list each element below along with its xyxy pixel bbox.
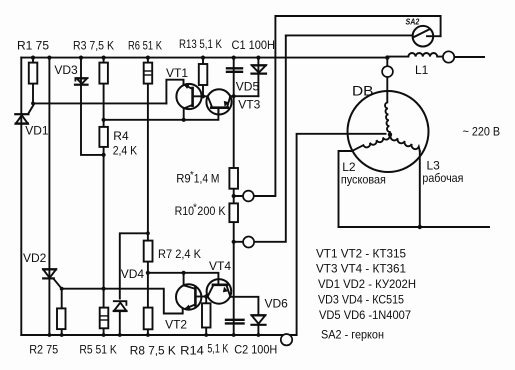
transistor VT4 (207, 279, 232, 304)
wire AC top right (454, 56, 484, 58)
diode VD5 (252, 65, 267, 73)
wire top bus (21, 57, 387, 59)
svg-text:5,1 K: 5,1 K (207, 342, 228, 356)
wire VT3 emitter to C1 node (230, 95, 258, 97)
svg-text:R1 75: R1 75 (17, 39, 49, 53)
junction dot VD2 gate (60, 287, 64, 291)
terminal circle motor top (382, 66, 393, 77)
resistor R5 (100, 308, 109, 329)
terminal circle bottom bus (281, 334, 292, 345)
svg-text:R4: R4 (113, 129, 129, 143)
wire SA2 left (286, 34, 413, 36)
wire VT2 collector lead (183, 273, 185, 286)
resistor R7 (144, 241, 153, 262)
svg-text:R6 51 K: R6 51 K (128, 39, 162, 53)
svg-text:SA2 - геркон: SA2 - геркон (321, 328, 384, 342)
svg-text:VT4: VT4 (209, 259, 231, 273)
svg-text:~ 220 В: ~ 220 В (463, 125, 501, 139)
svg-text:R5 51 K: R5 51 K (79, 343, 116, 357)
svg-text:VT2: VT2 (165, 318, 187, 332)
resistor R13 (199, 64, 208, 85)
svg-text:1,4 М: 1,4 М (194, 172, 220, 186)
svg-text:VD5 VD6 -1N4007: VD5 VD6 -1N4007 (319, 308, 411, 322)
wire VD2 rail (48, 58, 50, 335)
svg-text:R3 7,5 K: R3 7,5 K (73, 39, 114, 53)
terminal circle L1 right (443, 51, 454, 62)
junction dot VT2 collector (182, 271, 186, 275)
svg-text:2,4 K: 2,4 K (113, 143, 138, 157)
resistor R1 (29, 63, 38, 84)
junction dots top bus (31, 56, 35, 60)
junction dot R9 node (232, 194, 236, 198)
wire VD2 gate horizontal (62, 289, 183, 314)
thyristor VD2 (43, 269, 62, 288)
svg-text:VD3: VD3 (54, 63, 78, 77)
thyristor VD1 (15, 104, 34, 124)
zener VD4 (114, 301, 127, 311)
svg-text:VD1: VD1 (25, 124, 49, 138)
svg-text:R13 5,1 K: R13 5,1 K (179, 37, 222, 51)
wire C1-R9-R10-C2 rail (233, 58, 235, 335)
wire terminal 1 horizontal (234, 16, 441, 196)
wire R1 rail (32, 58, 34, 104)
svg-text:DB: DB (352, 84, 374, 99)
svg-text:VD3 VD4 - КС515: VD3 VD4 - КС515 (318, 293, 404, 307)
transistor VT1 (176, 84, 201, 109)
svg-text:VD6: VD6 (265, 297, 289, 311)
resistor R3 (99, 63, 108, 84)
junction dot VD4-R7 node (146, 231, 150, 235)
svg-text:R2 75: R2 75 (29, 343, 58, 357)
wire VD3 rail (81, 58, 104, 155)
wire VT1 emitter route (166, 80, 183, 104)
wire R2 drop (61, 289, 63, 335)
svg-text:VT3 VT4 - КТ361: VT3 VT4 - КТ361 (316, 262, 406, 276)
wire VD6 bottom (257, 326, 259, 335)
svg-text:VD2: VD2 (23, 251, 47, 265)
wire R3-R4-R5 rail (103, 58, 105, 335)
svg-text:R9: R9 (176, 172, 191, 186)
resistor R10 (229, 203, 238, 222)
wire VD5 drop (257, 58, 259, 97)
svg-text:пусковая: пусковая (341, 172, 386, 186)
resistor R4 (99, 127, 108, 147)
zener VD3 (75, 78, 88, 85)
svg-text:R8 7,5 K: R8 7,5 K (130, 344, 176, 358)
wire bottom bus (21, 334, 296, 336)
resistor R8 (144, 308, 153, 330)
svg-text:C1 100Н: C1 100Н (232, 38, 276, 52)
motor winding left (L2) (352, 135, 390, 151)
capacitor C2 (226, 320, 244, 324)
wire VT2 collector node (148, 273, 219, 285)
wire VT1 collector node (104, 108, 219, 120)
junction dot motor loop (418, 225, 422, 229)
resistor R9 (229, 168, 238, 189)
wire VD4 bottom (119, 311, 121, 335)
junction dots bottom bus (48, 333, 52, 337)
reed switch SA2 (413, 26, 441, 47)
inductor L1 (387, 53, 443, 57)
junction dot motor star (388, 132, 392, 136)
svg-text:VD4: VD4 (121, 267, 145, 281)
junction dot R3-R4 node (102, 118, 106, 122)
wire VT2 base to VT4 (196, 296, 207, 298)
wire terminal 2 horizontal (234, 35, 287, 241)
wire motor loop bottom (339, 226, 490, 228)
resistor R6 (144, 63, 153, 84)
wire VT1 collector lead (183, 108, 185, 120)
motor loop left (339, 151, 353, 227)
svg-text:C2 100Н: C2 100Н (234, 343, 277, 357)
junction dot VT1 collector (182, 118, 186, 122)
motor winding right (L3) (391, 135, 420, 151)
svg-text:R14: R14 (180, 344, 204, 358)
transistor VT3 (206, 89, 231, 114)
junction dot VD3 node (102, 153, 106, 157)
resistor R14 (202, 303, 211, 327)
svg-text:VT3: VT3 (238, 98, 260, 112)
wire motor common (297, 134, 386, 335)
junction dot R5 node (102, 287, 106, 291)
motor winding top (385, 92, 390, 133)
svg-text:R7 2,4 K: R7 2,4 K (158, 247, 201, 261)
svg-text:R10: R10 (175, 204, 195, 218)
junction dot R10 node (232, 240, 236, 244)
svg-text:SA2: SA2 (406, 17, 420, 26)
junction dot R13 base node (201, 94, 205, 98)
svg-text:VT1 VT2 - КТ315: VT1 VT2 - КТ315 (316, 247, 406, 261)
wire VT4 emitter to VD6 (230, 297, 258, 315)
terminal circle R9 junction (243, 191, 254, 202)
diode VD6 (252, 315, 266, 325)
wire VT1 base to VT3 (193, 95, 207, 97)
junction dot R14 node (204, 294, 208, 298)
svg-text:рабочая: рабочая (422, 171, 463, 185)
svg-text:VT1: VT1 (166, 66, 188, 80)
transistor VT2 (176, 284, 201, 309)
wire R13 rail (202, 58, 204, 97)
wire VD4 top horizontal (120, 233, 148, 298)
wire left rail with VD1 (20, 58, 22, 335)
svg-text:VD1 VD2 - КУ202Н: VD1 VD2 - КУ202Н (318, 277, 416, 291)
wire motor top drop (386, 58, 388, 92)
svg-text:200 K: 200 K (197, 204, 225, 218)
wire R6-R7-R8 rail (147, 58, 149, 335)
resistor R2 (57, 308, 66, 329)
motor DB circle (348, 91, 429, 172)
junction dot R7 node (146, 271, 150, 275)
terminal circle R10 junction (243, 237, 254, 248)
junction dot C1 node (232, 94, 236, 98)
junction dot VD1 gate (31, 102, 35, 106)
svg-text:L1: L1 (415, 63, 429, 77)
capacitor C1 (227, 68, 242, 72)
svg-text:VD5: VD5 (236, 80, 260, 94)
wire R14 drop (205, 297, 207, 336)
wire VD1 gate horizontal (33, 102, 166, 104)
motor loop right (419, 151, 421, 227)
